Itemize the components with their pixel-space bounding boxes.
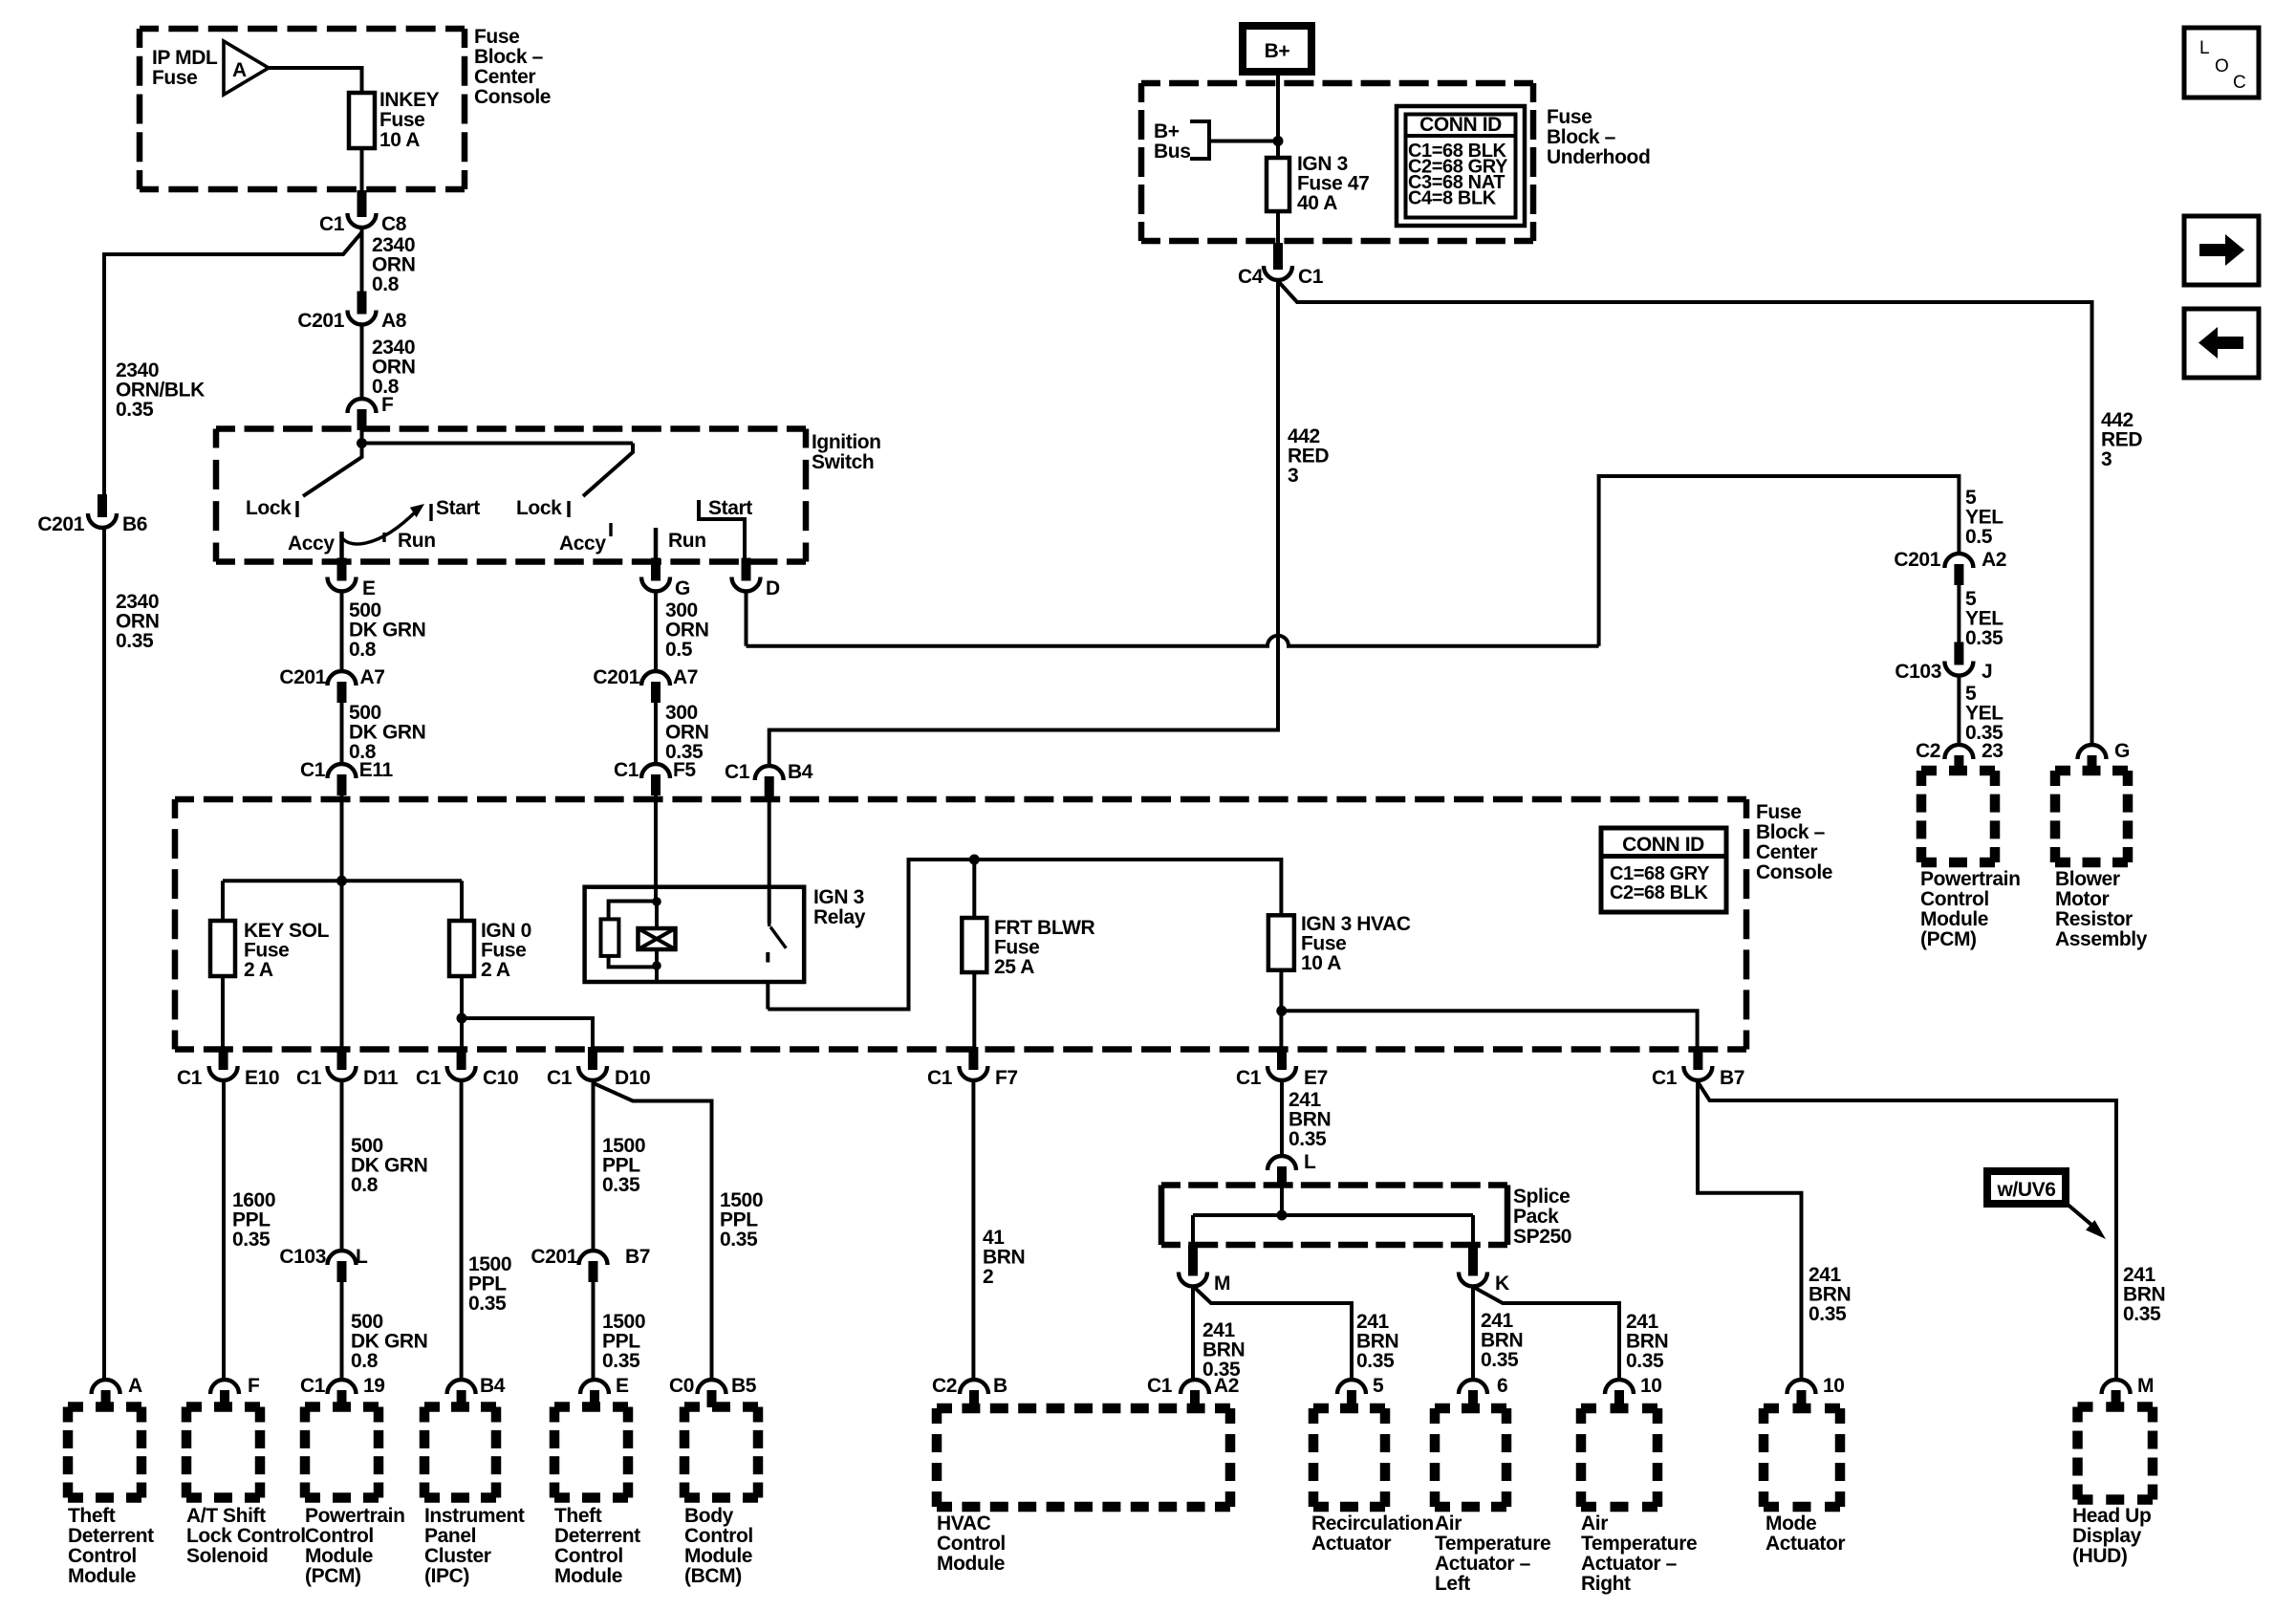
CONN ID table (center console) [1601, 828, 1726, 912]
connector G [651, 558, 661, 581]
svg-text:C1: C1 [1652, 1067, 1678, 1089]
svg-text:F7: F7 [995, 1067, 1018, 1089]
svg-text:A/T Shift: A/T Shift [186, 1505, 266, 1527]
svg-text:Relay: Relay [813, 906, 866, 928]
svg-text:B4: B4 [788, 761, 813, 783]
terminal tick Lock 1 [295, 501, 298, 517]
wire D11 to C103/L [340, 1081, 344, 1250]
svg-text:(HUD): (HUD) [2072, 1545, 2127, 1567]
connector C1/E10 [219, 1047, 228, 1070]
svg-text:Module: Module [1920, 908, 1988, 930]
svg-text:A: A [232, 59, 247, 81]
svg-text:Start: Start [708, 497, 752, 519]
connector C2/23 (PCM) [1954, 755, 1963, 772]
svg-text:(PCM): (PCM) [1920, 928, 1977, 950]
buffer/source symbol A (IP MDL Fuse) [224, 41, 269, 95]
junction node B+ bus [1273, 136, 1284, 146]
svg-text:2 A: 2 A [481, 959, 510, 981]
svg-text:C201: C201 [297, 310, 344, 332]
CONN ID table (underhood) [1397, 106, 1525, 226]
wire L into splice [1280, 1186, 1284, 1215]
wire B7 to mode actuator [1698, 1081, 1802, 1379]
wire C10 to IPC B4 [460, 1081, 464, 1379]
svg-text:J: J [1982, 661, 1992, 683]
svg-text:Mode: Mode [1765, 1513, 1816, 1535]
svg-text:Ignition: Ignition [812, 431, 881, 453]
svg-text:INKEY: INKEY [379, 89, 440, 111]
svg-text:C103: C103 [279, 1246, 326, 1268]
connector C0/B5 (BCM) [707, 1390, 717, 1407]
terminal tick Start 1 [429, 504, 432, 521]
recirculation actuator box [1313, 1404, 1385, 1414]
wire central E11 to D11 [340, 881, 344, 1050]
wire wiper arm 1 to Lock [303, 444, 362, 497]
svg-text:Module: Module [305, 1545, 373, 1567]
svg-text:Control: Control [684, 1525, 753, 1547]
svg-text:(BCM): (BCM) [684, 1565, 742, 1587]
connector C1/A2 (HVAC) [1190, 1390, 1200, 1407]
svg-text:0.35: 0.35 [1965, 627, 2004, 649]
svg-text:C1: C1 [927, 1067, 953, 1089]
wire Start 2 terminal to D [699, 500, 745, 560]
svg-text:Run: Run [668, 530, 706, 552]
svg-text:0.8: 0.8 [372, 273, 400, 295]
svg-text:0.35: 0.35 [1809, 1303, 1847, 1325]
svg-text:Center: Center [474, 66, 535, 88]
svg-text:Center: Center [1756, 841, 1817, 863]
svg-text:Actuator –: Actuator – [1435, 1553, 1531, 1575]
svg-text:10: 10 [1640, 1375, 1662, 1397]
svg-text:IP MDL: IP MDL [152, 47, 218, 69]
A/T shift lock control solenoid box [186, 1402, 260, 1412]
connector C201/A7 (E branch) [337, 682, 347, 703]
ignition switch dashed box [216, 425, 806, 432]
svg-text:Lock: Lock [516, 497, 562, 519]
wire E to C201/A7 [340, 592, 344, 670]
connector C201/B6 [97, 494, 107, 517]
svg-text:L: L [1304, 1151, 1316, 1173]
wire fuse feed bus (KEY SOL / IGN 0) [223, 879, 462, 882]
svg-text:0.8: 0.8 [351, 1174, 379, 1196]
connector C1/19 (PCM) [337, 1390, 347, 1407]
svg-text:Deterrent: Deterrent [68, 1525, 154, 1547]
connector D [742, 558, 751, 581]
svg-text:A: A [128, 1375, 142, 1397]
svg-text:Recirculation: Recirculation [1311, 1513, 1434, 1535]
wire L to PCM pin 19 [340, 1281, 344, 1379]
svg-text:Switch: Switch [812, 451, 874, 473]
wire from A to INKEY fuse [269, 68, 362, 93]
svg-text:B5: B5 [731, 1375, 757, 1397]
wire Run 2 terminal to G [654, 528, 659, 560]
svg-text:0.35: 0.35 [116, 630, 154, 652]
svg-text:Right: Right [1581, 1573, 1631, 1595]
connector C1/D11 [337, 1047, 347, 1070]
connector M (splice output) [1188, 1246, 1198, 1276]
svg-text:B+: B+ [1265, 40, 1290, 62]
svg-text:Solenoid: Solenoid [186, 1545, 268, 1567]
svg-text:Fuse: Fuse [474, 26, 519, 48]
wire A8 to F [360, 325, 364, 398]
mode actuator box [1764, 1404, 1840, 1414]
svg-text:0.5: 0.5 [665, 639, 693, 661]
svg-text:Fuse: Fuse [1756, 801, 1801, 823]
connector C1/B4 [765, 776, 774, 802]
svg-text:Module: Module [684, 1545, 752, 1567]
svg-text:C1: C1 [319, 213, 345, 235]
svg-text:Body: Body [684, 1505, 734, 1527]
terminal tick Lock 2 [567, 501, 570, 517]
svg-text:Run: Run [398, 530, 436, 552]
wire IGN 3 HVAC fuse to E7 [1279, 970, 1283, 1050]
svg-text:K: K [1495, 1273, 1509, 1295]
left arrow legend box [2184, 309, 2259, 378]
powertrain control module (PCM) box [1921, 766, 1995, 776]
svg-text:Control: Control [937, 1533, 1006, 1555]
svg-text:SP250: SP250 [1513, 1226, 1571, 1248]
connector M (HUD) [2112, 1390, 2121, 1407]
svg-text:Accy: Accy [559, 533, 606, 555]
svg-text:Block –: Block – [1547, 126, 1616, 148]
connector 10 (mode actuator) [1797, 1390, 1807, 1407]
connector C103/L [337, 1261, 347, 1282]
svg-text:Fuse: Fuse [379, 109, 424, 131]
wire D10 branch to BCM B5 [594, 1083, 712, 1379]
svg-text:(IPC): (IPC) [424, 1565, 469, 1587]
connector F (A/T shift) [220, 1390, 229, 1407]
wire F5 to IGN 3 relay coil [654, 795, 658, 902]
wire KEY SOL fuse to E10 [221, 976, 225, 1050]
instrument panel cluster box [424, 1402, 496, 1412]
svg-text:Underhood: Underhood [1547, 146, 1650, 168]
connector E [337, 558, 347, 581]
wire J to C2/23 [1957, 676, 1960, 744]
svg-text:Block –: Block – [474, 46, 544, 68]
svg-text:F: F [248, 1375, 260, 1397]
fuse FRT BLWR 25 A [962, 918, 986, 972]
connector C1/F7 [968, 1047, 978, 1070]
wire B6 to theft deterrent control module (2340 ORN 0.35) [102, 529, 106, 1379]
svg-text:B: B [993, 1375, 1007, 1397]
svg-text:C4: C4 [1238, 266, 1264, 288]
wire branch C8 to C201/B6 (2340 ORN/BLK) [104, 232, 362, 495]
svg-text:E: E [616, 1375, 629, 1397]
powertrain control module box [305, 1402, 379, 1412]
fuse INKEY 10 A [349, 93, 375, 148]
svg-text:D10: D10 [615, 1067, 650, 1089]
relay coil junction bottom [652, 961, 661, 970]
svg-text:G: G [675, 577, 690, 599]
svg-text:0.35: 0.35 [116, 399, 154, 421]
connector C201/A8 [357, 292, 367, 315]
svg-text:10 A: 10 A [1301, 952, 1341, 974]
svg-text:B6: B6 [122, 513, 147, 535]
wire E11 into fuse block [340, 795, 344, 881]
fuse KEY SOL 2 A [210, 921, 235, 976]
junction node IGN 3 HVAC output [1276, 1006, 1287, 1016]
wire A2 to C103/J [1957, 584, 1960, 644]
junction node IGN 0 output [457, 1013, 467, 1024]
wire D10 to C201/B7 [592, 1081, 596, 1250]
wire FRT BLWR fuse to F7 [972, 972, 976, 1050]
svg-text:0.35: 0.35 [1481, 1349, 1519, 1371]
svg-text:w/UV6: w/UV6 [1996, 1179, 2055, 1201]
svg-text:C1: C1 [177, 1067, 203, 1089]
fuse IGN 3 HVAC 10 A [1268, 915, 1294, 969]
svg-text:Splice: Splice [1513, 1186, 1570, 1208]
connector 10 (air temp right) [1614, 1390, 1624, 1407]
fuse block - center console dashed box [175, 796, 1746, 803]
svg-text:Temperature: Temperature [1435, 1533, 1550, 1555]
svg-text:E7: E7 [1304, 1067, 1328, 1089]
svg-text:C1: C1 [1298, 266, 1324, 288]
connector C1/B7 [1693, 1047, 1702, 1070]
connector C201/A2 [1954, 564, 1963, 585]
svg-text:Bus: Bus [1154, 141, 1190, 163]
svg-text:0.35: 0.35 [1626, 1350, 1664, 1372]
wire K branch to air temp right 10 [1475, 1288, 1619, 1379]
power feed B+ symbol [1243, 26, 1311, 72]
terminal tick Accy 2 [609, 523, 612, 536]
svg-text:CONN ID: CONN ID [1622, 834, 1704, 856]
svg-text:C10: C10 [483, 1067, 518, 1089]
svg-text:(PCM): (PCM) [305, 1565, 361, 1587]
svg-text:Theft: Theft [68, 1505, 116, 1527]
junction node E11 feed [336, 876, 347, 886]
connector K (splice output) [1468, 1246, 1478, 1276]
svg-text:2 A: 2 A [244, 959, 273, 981]
body control module box [684, 1402, 758, 1412]
svg-text:A2: A2 [1214, 1375, 1239, 1397]
wire M to HVAC C1/A2 [1191, 1288, 1195, 1380]
svg-text:C1: C1 [614, 759, 639, 781]
wire 442 RED to relay via B4 [769, 281, 1278, 765]
connector 6 (air temp left) [1468, 1390, 1478, 1407]
svg-text:Theft: Theft [554, 1505, 602, 1527]
svg-text:C201: C201 [1894, 549, 1940, 571]
svg-text:C201: C201 [531, 1246, 577, 1268]
svg-text:C1: C1 [547, 1067, 573, 1089]
svg-text:Start: Start [436, 497, 480, 519]
svg-text:G: G [2114, 740, 2130, 762]
svg-text:C1=68 GRY: C1=68 GRY [1610, 863, 1710, 884]
right arrow legend box [2184, 216, 2259, 285]
svg-text:Pack: Pack [1513, 1206, 1559, 1228]
connector C1/D10 [588, 1047, 597, 1070]
svg-text:A8: A8 [381, 310, 407, 332]
connector 5 (recirculation actuator) [1347, 1390, 1356, 1407]
svg-text:E10: E10 [245, 1067, 279, 1089]
svg-text:0.8: 0.8 [349, 639, 377, 661]
svg-text:F: F [381, 394, 394, 416]
svg-text:6: 6 [1497, 1375, 1507, 1397]
svg-text:Block –: Block – [1756, 821, 1826, 843]
svg-text:F5: F5 [673, 759, 696, 781]
fuse block - underhood dashed box [1141, 80, 1533, 87]
connector E (theft deterrent 2) [590, 1390, 599, 1407]
connector C201/A7 (G branch) [651, 682, 661, 703]
svg-text:A2: A2 [1982, 549, 2006, 571]
svg-text:Assembly: Assembly [2055, 928, 2148, 950]
svg-text:D11: D11 [363, 1067, 399, 1089]
svg-text:Blower: Blower [2055, 868, 2120, 890]
svg-text:C1: C1 [1236, 1067, 1262, 1089]
wire B7 to theft deterrent module E [592, 1281, 596, 1379]
svg-text:Module: Module [554, 1565, 622, 1587]
svg-text:Module: Module [68, 1565, 136, 1587]
svg-text:C201: C201 [593, 666, 639, 688]
svg-text:Panel: Panel [424, 1525, 476, 1547]
junction node FRT BLWR feed [969, 855, 980, 865]
connector A (theft deterrent) [101, 1390, 111, 1407]
relay IGN 3 box [585, 887, 805, 982]
svg-text:10: 10 [1823, 1375, 1845, 1397]
relay coil [655, 902, 659, 928]
theft deterrent control module box [68, 1402, 141, 1412]
svg-text:HVAC: HVAC [937, 1513, 991, 1535]
svg-text:C2=68 BLK: C2=68 BLK [1610, 882, 1709, 903]
svg-text:Control: Control [554, 1545, 623, 1567]
svg-text:Powertrain: Powertrain [1920, 868, 2021, 890]
svg-text:IGN 3: IGN 3 [813, 886, 864, 908]
svg-text:19: 19 [363, 1375, 385, 1397]
svg-text:0.35: 0.35 [602, 1174, 640, 1196]
svg-text:Fuse: Fuse [1547, 106, 1592, 128]
svg-text:3: 3 [1288, 465, 1298, 487]
svg-text:C8: C8 [381, 213, 407, 235]
svg-text:Air: Air [1581, 1513, 1608, 1535]
connector C1/C10 [457, 1047, 466, 1070]
svg-text:Motor: Motor [2055, 888, 2110, 910]
svg-text:M: M [1214, 1273, 1230, 1295]
wire E7 to L [1280, 1081, 1284, 1155]
svg-text:C1: C1 [300, 759, 326, 781]
wire D to C201/A2 (5 YEL) with hop over 442 RED [745, 592, 748, 646]
svg-text:Accy: Accy [288, 533, 335, 555]
head up display box [2078, 1402, 2154, 1412]
wire Accy terminal to E [339, 532, 344, 560]
wire M branch to recirculation actuator 5 [1195, 1288, 1352, 1379]
connector B4 (IPC) [457, 1390, 466, 1407]
svg-text:CONN ID: CONN ID [1419, 114, 1502, 136]
svg-text:C1: C1 [296, 1067, 322, 1089]
svg-text:Fuse: Fuse [152, 67, 197, 89]
connector C2/B (HVAC) [969, 1390, 979, 1407]
wire IGN 0 output to D10 [462, 1018, 593, 1050]
wire B4 to relay switch [768, 796, 771, 924]
svg-text:E11: E11 [359, 759, 394, 781]
svg-text:3: 3 [2101, 448, 2112, 470]
svg-text:0.35: 0.35 [468, 1293, 507, 1315]
svg-text:D: D [766, 577, 780, 599]
connector C1/E7 [1277, 1047, 1287, 1070]
svg-text:L: L [2199, 38, 2209, 58]
connector C201/B7 (theft branch) [589, 1261, 598, 1282]
splice pack SP250 dashed box [1161, 1182, 1507, 1188]
svg-text:C4=8 BLK: C4=8 BLK [1408, 188, 1497, 209]
svg-text:C1: C1 [416, 1067, 442, 1089]
connector C103/J [1954, 642, 1963, 665]
svg-text:Deterrent: Deterrent [554, 1525, 640, 1547]
svg-text:0.8: 0.8 [351, 1350, 379, 1372]
svg-text:C0: C0 [669, 1375, 694, 1397]
svg-text:M: M [2137, 1375, 2154, 1397]
wire B7 to head up display [1699, 1083, 2116, 1379]
svg-text:A7: A7 [360, 666, 385, 688]
svg-text:C103: C103 [1895, 661, 1941, 683]
wire E10 to A/T shift lock control solenoid [222, 1081, 226, 1379]
connector C1/F5 [651, 774, 661, 795]
svg-text:C1: C1 [725, 761, 750, 783]
junction node splice SP250 [1277, 1210, 1288, 1221]
svg-text:0.35: 0.35 [1289, 1128, 1327, 1150]
svg-text:Left: Left [1435, 1573, 1470, 1595]
svg-text:25 A: 25 A [994, 956, 1034, 978]
svg-text:10 A: 10 A [379, 129, 420, 151]
fuse block - center console (upper) dashed box [140, 26, 465, 33]
svg-text:Head Up: Head Up [2072, 1505, 2151, 1527]
svg-text:Control: Control [305, 1525, 374, 1547]
w/UV6 option flag box [1987, 1171, 2066, 1204]
air temperature actuator left box [1435, 1404, 1506, 1414]
wire K to air temp left 6 [1471, 1288, 1475, 1380]
svg-text:A7: A7 [673, 666, 698, 688]
connector F (ignition switch) [357, 409, 367, 430]
svg-text:O: O [2215, 56, 2228, 76]
svg-text:5: 5 [1373, 1375, 1384, 1397]
svg-text:0.35: 0.35 [720, 1229, 758, 1251]
relay switch contact and blade [768, 924, 770, 926]
fuse IGN 0 2 A [449, 921, 474, 976]
wire IGN 0 fuse output [460, 976, 464, 1050]
svg-text:Module: Module [937, 1553, 1005, 1575]
connector C1/E11 [337, 774, 347, 795]
wire IGN 3 HVAC output to B7 [1282, 1011, 1698, 1050]
relay coil junction top [652, 897, 661, 906]
wire C8 to C201/A8 [360, 229, 364, 292]
svg-text:C1: C1 [300, 1375, 326, 1397]
svg-text:C201: C201 [279, 666, 326, 688]
blower motor resistor assembly box [2055, 766, 2128, 776]
air temperature actuator right box [1581, 1404, 1657, 1414]
svg-text:2: 2 [983, 1266, 993, 1288]
wire A7 to C1/F5 [654, 702, 658, 763]
svg-text:Air: Air [1435, 1513, 1462, 1535]
connector C4/C1 [1273, 243, 1283, 270]
w/UV6 arrow [2066, 1203, 2091, 1225]
svg-text:C: C [2233, 73, 2245, 93]
svg-text:Actuator –: Actuator – [1581, 1553, 1678, 1575]
connector C1/C8 [357, 190, 367, 217]
svg-text:C2: C2 [932, 1375, 957, 1397]
svg-text:40 A: 40 A [1297, 192, 1337, 214]
wire ignition feed bus [360, 429, 364, 444]
junction node below F [357, 438, 367, 448]
connector G (blower motor resistor) [2088, 755, 2097, 772]
svg-text:0.35: 0.35 [1356, 1350, 1395, 1372]
LOC legend box [2184, 28, 2259, 98]
svg-text:Actuator: Actuator [1311, 1533, 1391, 1555]
svg-text:C1: C1 [1147, 1375, 1173, 1397]
svg-text:0.35: 0.35 [602, 1350, 640, 1372]
wire A7 to C1/E11 [340, 702, 344, 763]
splice bus wire [1193, 1213, 1473, 1217]
svg-text:Control: Control [1920, 888, 1989, 910]
wire INKEY fuse to box edge [360, 148, 364, 191]
svg-text:Cluster: Cluster [424, 1545, 491, 1567]
terminal tick Run 1 [382, 533, 385, 542]
svg-text:Lock: Lock [246, 497, 292, 519]
